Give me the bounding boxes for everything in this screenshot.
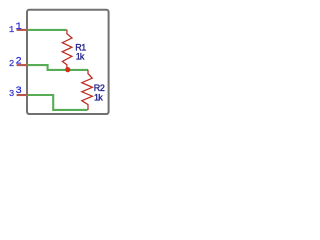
svg-text:1k: 1k [94,93,103,103]
svg-text:3: 3 [16,85,22,97]
symbol body box [27,10,109,114]
pin 1 [17,29,27,31]
resistor R2 body [82,70,93,110]
wire net3: pin3 to R2 bottom [28,95,88,110]
resistor R1 body [62,30,72,70]
svg-text:2: 2 [9,59,14,69]
svg-text:3: 3 [9,89,14,99]
wire net1: pin1 to R1 top [28,29,67,31]
svg-text:1k: 1k [76,51,85,61]
junction node [65,67,70,72]
wire net2: pin2 to junction and R2 top [28,65,89,70]
svg-text:R2: R2 [94,83,105,93]
pin 2 [17,64,27,66]
svg-text:2: 2 [16,56,22,68]
svg-text:1: 1 [9,25,14,35]
svg-text:1: 1 [16,21,22,33]
pin 3 [17,94,27,96]
